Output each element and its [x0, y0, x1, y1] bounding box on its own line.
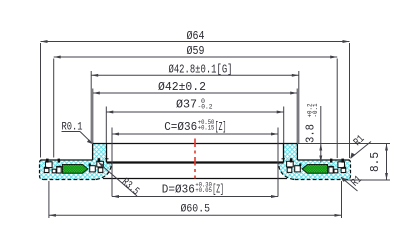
svg-text:-0.1: -0.1	[312, 103, 319, 117]
spring energizer right (green)	[302, 165, 327, 174]
dimension Ø59	[54, 56, 338, 58]
step notch left	[105, 158, 109, 160]
svg-text:+0.05: +0.05	[195, 187, 212, 194]
svg-text:3.8: 3.8	[305, 124, 318, 143]
metal insert right	[338, 162, 345, 168]
bore edge silhouette line (thick)	[107, 161, 284, 163]
dimension 3.8 +0.2/-0.1 (vertical)	[320, 106, 322, 163]
bottom silhouette line	[103, 178, 287, 180]
svg-text:Ø42±0.2: Ø42±0.2	[158, 81, 206, 94]
dimension Ø42.8±0.1[G]	[91, 74, 299, 76]
fillet R3.5 left (dashed arc)	[96, 164, 112, 180]
centerline (red dashed axis)	[194, 139, 196, 179]
seal body right (rubber section, hatched)	[279, 144, 351, 180]
radius label R3.5 with leader	[100, 164, 138, 197]
dimension Ø37 -0/-0.2	[106, 111, 283, 113]
svg-text:Ø59: Ø59	[187, 45, 205, 58]
svg-text:+0.15: +0.15	[198, 125, 215, 132]
radius label R1 (bottom right)	[341, 177, 358, 191]
fillet R3.5 right (dashed arc)	[279, 164, 295, 180]
radius label R1 (top right)	[351, 142, 372, 159]
svg-text:[Z]: [Z]	[212, 184, 224, 197]
seal outline right: top edge	[297, 159, 349, 161]
extension lines	[40, 43, 42, 158]
spring energizer left (green)	[63, 165, 88, 174]
svg-text:C=Ø36: C=Ø36	[164, 121, 197, 134]
seal outline left: top edge	[41, 159, 93, 161]
svg-text:[Z]: [Z]	[215, 121, 227, 134]
lip column left edges	[92, 144, 94, 161]
metal insert left	[46, 162, 53, 168]
seal outline left: bottom edge (dashed)	[44, 179, 97, 181]
svg-text:Ø64: Ø64	[187, 30, 205, 43]
dimension C=Ø36 +0.50/+0.15 [Z]	[112, 133, 278, 135]
lip column right edges	[296, 144, 298, 161]
dimension D=Ø36 +0.30/+0.05 [Z]	[112, 196, 278, 198]
svg-text:Ø60.5: Ø60.5	[181, 204, 211, 216]
dimension Ø42±0.2	[93, 92, 297, 94]
svg-text:Ø42.8±0.1[G]: Ø42.8±0.1[G]	[169, 64, 233, 77]
svg-text:Ø37: Ø37	[176, 99, 197, 112]
svg-text:8.5: 8.5	[368, 152, 382, 172]
seal outline right: bottom edge (dashed)	[294, 179, 347, 181]
lip top silhouette line	[93, 143, 298, 145]
dimension Ø64	[41, 41, 350, 43]
seal body left (rubber section, hatched)	[40, 144, 112, 180]
svg-text:D=Ø36: D=Ø36	[162, 184, 195, 197]
seal outline left: left end (rounded, dashed)	[40, 160, 44, 180]
dimension Ø60.5	[49, 214, 342, 216]
svg-text:-0.2: -0.2	[198, 104, 213, 111]
seal outline right: right end (rounded R1, dashed)	[347, 160, 351, 180]
step notch right	[282, 158, 286, 160]
dimension 8.5 (vertical right)	[386, 144, 388, 181]
